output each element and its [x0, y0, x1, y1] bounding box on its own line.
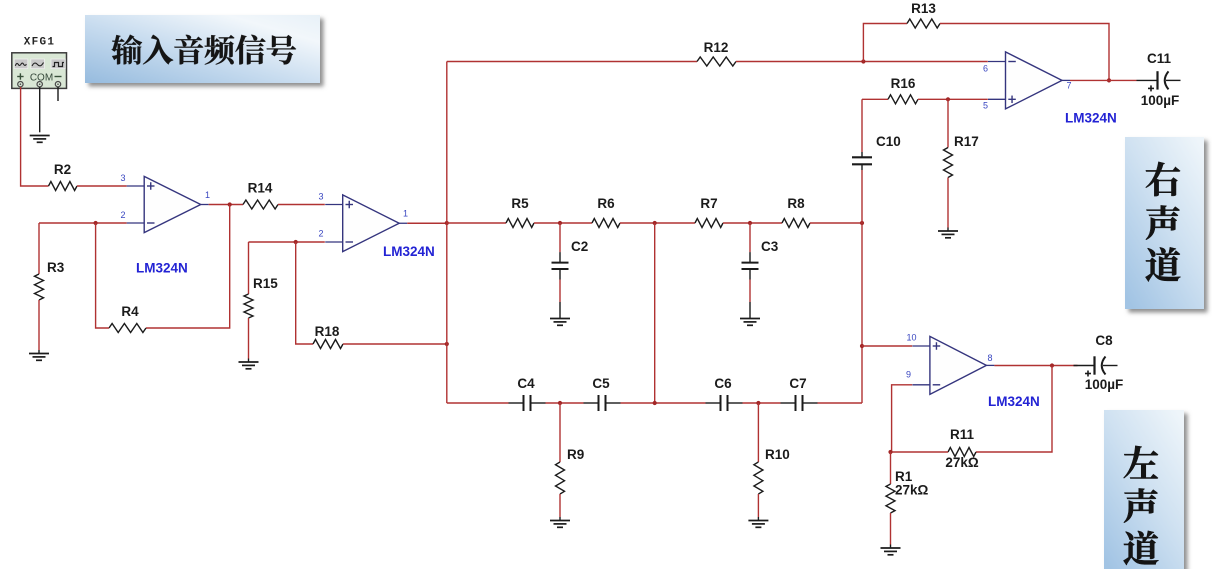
ground (C3) — [740, 319, 760, 326]
svg-text:1: 1 — [403, 209, 408, 219]
capacitor C4 — [509, 395, 546, 411]
wire R6-R7 segment — [620, 222, 695, 224]
svg-text:C6: C6 — [714, 376, 732, 391]
wire R17 top lead — [947, 99, 949, 147]
svg-text:R4: R4 — [121, 304, 139, 319]
ground (C2) — [550, 319, 570, 326]
node pin2 junction U2 — [294, 240, 298, 244]
node junction pin2/R4 — [94, 221, 98, 225]
svg-text:9: 9 — [906, 370, 911, 380]
wire R16 row — [862, 98, 888, 100]
node R16/R17 junction — [946, 97, 950, 101]
wire R13 feedback loop — [863, 24, 907, 62]
svg-text:27kΩ: 27kΩ — [895, 483, 929, 498]
wire R1 bottom lead — [890, 513, 892, 545]
svg-text:LM324N: LM324N — [988, 394, 1040, 409]
wire U2 pin2 row — [249, 241, 325, 243]
svg-text:2: 2 — [120, 210, 125, 220]
svg-text:C3: C3 — [761, 239, 779, 254]
ground (R15) — [239, 362, 259, 369]
banner 左声道 (left channel) — [1104, 410, 1184, 572]
svg-text:7: 7 — [1066, 81, 1071, 91]
wire R11 to R1 junction — [891, 451, 949, 453]
ground (XFG1 COM) — [30, 136, 50, 143]
capacitor C10 — [852, 152, 872, 170]
node middle rail bottom junction — [653, 401, 657, 405]
node R18/rail junction — [445, 342, 449, 346]
wire C5 to middle rail — [621, 402, 706, 404]
resistor R2 — [49, 182, 78, 191]
wire C6 to C7 — [743, 402, 781, 404]
capacitor C11 100uF polarized — [1137, 71, 1181, 91]
svg-text:R15: R15 — [253, 276, 278, 291]
wire op-amp U1 pin2 row to left — [39, 222, 127, 224]
wire R16 to U3 pin5 — [918, 98, 988, 100]
wire R8 to right rail — [810, 222, 862, 224]
wire U4 output to C8 — [994, 365, 1077, 367]
wire C4 to C5 — [546, 402, 584, 404]
resistor R15 — [244, 294, 253, 318]
svg-text:C2: C2 — [571, 239, 588, 254]
wire XFG1 COM to ground — [39, 87, 41, 132]
svg-text:C10: C10 — [876, 134, 901, 149]
wire R18 to left vertical rail — [343, 343, 447, 345]
node U4 output junction — [1050, 363, 1054, 367]
op-amp U2 (LM324N stage 2) — [325, 195, 407, 252]
wire R9 top lead — [559, 403, 561, 462]
svg-text:R11: R11 — [950, 427, 975, 442]
capacitor C8 100uF polarized — [1074, 356, 1118, 376]
node R11/R1/pin9 junction — [888, 450, 892, 454]
ground (R10) — [748, 521, 768, 528]
svg-text:LM324N: LM324N — [383, 244, 435, 259]
node middle rail top junction — [653, 221, 657, 225]
banner shadow + box 输入音频信号 (input audio signal) — [85, 15, 320, 83]
function generator XFG1 — [12, 37, 67, 89]
svg-text:R18: R18 — [315, 324, 340, 339]
wire C7 to right rail — [818, 402, 863, 404]
ground (R9) — [550, 521, 570, 528]
wire U4 pin9 to R11 junction — [892, 385, 913, 452]
svg-text:3: 3 — [120, 173, 125, 183]
resistor R3 — [35, 274, 44, 300]
wire R4 left to pin2 junction — [96, 223, 109, 328]
wire R10 bottom lead — [757, 494, 759, 517]
wire R5-R6 segment — [534, 222, 592, 224]
svg-text:R12: R12 — [704, 40, 729, 55]
svg-text:27kΩ: 27kΩ — [945, 455, 979, 470]
wire R2 to op-amp U1 pin3 — [77, 185, 127, 187]
ground (R3) — [29, 354, 49, 361]
svg-text:C8: C8 — [1095, 333, 1113, 348]
wire R12 row from rail — [447, 61, 697, 63]
wire rail corner to C4 — [447, 402, 509, 404]
wire R15 top lead — [248, 242, 250, 294]
resistor R17 — [944, 148, 953, 178]
node U1 output junction — [228, 202, 232, 206]
wire R12 to op-amp U3 pin6 — [736, 61, 988, 63]
svg-text:100µF: 100µF — [1085, 377, 1124, 392]
resistor R11 27k — [948, 448, 976, 457]
banner 右声道 (right channel) — [1125, 137, 1204, 309]
ground (R1) — [881, 548, 901, 555]
op-amp U4 (LM324N left channel) — [912, 336, 994, 394]
svg-text:R2: R2 — [54, 162, 71, 177]
svg-text:1: 1 — [205, 190, 210, 200]
resistor R4 — [109, 324, 146, 333]
svg-text:C5: C5 — [592, 376, 610, 391]
node C3 tap — [748, 221, 752, 225]
resistor R5 — [506, 219, 534, 228]
resistor R14 — [243, 200, 278, 209]
svg-text:R14: R14 — [248, 181, 273, 196]
svg-text:6: 6 — [983, 64, 988, 74]
resistor R16 — [888, 95, 918, 104]
wire R13 to U3 output — [940, 24, 1109, 81]
svg-text:R5: R5 — [511, 196, 529, 211]
resistor R1 27k — [886, 484, 895, 513]
resistor R7 — [695, 219, 723, 228]
svg-text:5: 5 — [983, 101, 988, 111]
svg-text:C11: C11 — [1147, 51, 1172, 66]
svg-text:R16: R16 — [891, 76, 916, 91]
wire XFG1 minus stub — [57, 87, 59, 101]
wire right rail top (R16 corner to C10) — [861, 99, 863, 152]
capacitor C7 — [781, 395, 818, 411]
wire feedback down from output to R4 row — [146, 205, 230, 329]
wire right rail to U4 pin10 — [862, 345, 912, 347]
resistor R9 — [556, 462, 565, 494]
node R9 tap — [558, 401, 562, 405]
op-amp U1 (LM324N stage 1) — [127, 176, 209, 232]
wire right rail (C10 to C7 corner) — [861, 170, 863, 403]
resistor R13 — [907, 19, 940, 28]
resistor R8 — [782, 219, 810, 228]
wire U3 output to C11 — [1070, 79, 1137, 81]
node R10 tap — [756, 401, 760, 405]
svg-text:LM324N: LM324N — [1065, 111, 1117, 126]
wire R9 bottom lead — [559, 494, 561, 517]
svg-text:8: 8 — [987, 353, 992, 363]
svg-text:100µF: 100µF — [1141, 93, 1180, 108]
wire R15 bottom lead — [248, 318, 250, 359]
wire U1 output to R14 — [209, 204, 243, 206]
wire left vertical rail (R12 top to C4 row) — [446, 62, 448, 404]
svg-text:R9: R9 — [567, 447, 584, 462]
node right rail pin10 junction — [860, 344, 864, 348]
resistor R12 — [697, 57, 736, 66]
svg-text:10: 10 — [906, 333, 916, 343]
node bus/right-rail junction — [860, 221, 864, 225]
node U3 output/R13 junction — [1107, 78, 1111, 82]
wire R17 bottom lead — [947, 178, 949, 228]
node C2 tap — [558, 221, 562, 225]
capacitor C5 — [584, 395, 621, 411]
wire R3 top lead — [38, 223, 40, 274]
svg-text:R6: R6 — [597, 196, 615, 211]
wire U4 output feedback down to R11 — [976, 366, 1052, 453]
svg-text:R13: R13 — [911, 1, 936, 16]
resistor R18 — [313, 340, 343, 349]
svg-text:LM324N: LM324N — [136, 261, 188, 276]
wire middle vertical rail — [654, 223, 656, 403]
wire bus row segment rail-R5 — [447, 222, 506, 224]
resistor R6 — [592, 219, 620, 228]
resistor R10 — [754, 462, 763, 494]
svg-text:C7: C7 — [789, 376, 806, 391]
svg-text:R7: R7 — [700, 196, 717, 211]
wire R14 to op-amp U2 pin3 — [278, 204, 325, 206]
wire pin2 junction down to R18 — [296, 242, 313, 344]
svg-text:R17: R17 — [954, 134, 979, 149]
ground (R17) — [938, 231, 958, 238]
wire R1 top lead — [890, 452, 892, 484]
svg-text:XFG1: XFG1 — [24, 37, 56, 49]
capacitor C6 — [706, 395, 743, 411]
svg-text:R3: R3 — [47, 260, 65, 275]
svg-text:2: 2 — [318, 229, 323, 239]
wire R10 top lead — [757, 403, 759, 462]
capacitor C2 — [552, 223, 569, 302]
svg-text:3: 3 — [318, 192, 323, 202]
node R12/R13 junction — [861, 59, 865, 63]
wire R7-R8 segment — [723, 222, 782, 224]
wire U2 output to left rail — [407, 222, 447, 224]
svg-text:R10: R10 — [765, 447, 790, 462]
capacitor C3 — [742, 223, 759, 302]
svg-text:R8: R8 — [787, 196, 805, 211]
svg-text:C4: C4 — [517, 376, 535, 391]
wire XFG1 + output down and right to R2 — [21, 87, 49, 186]
op-amp U3 (LM324N right channel) — [988, 52, 1070, 109]
wire R3 bottom lead — [38, 300, 40, 350]
node U2 output/rail junction — [445, 221, 449, 225]
